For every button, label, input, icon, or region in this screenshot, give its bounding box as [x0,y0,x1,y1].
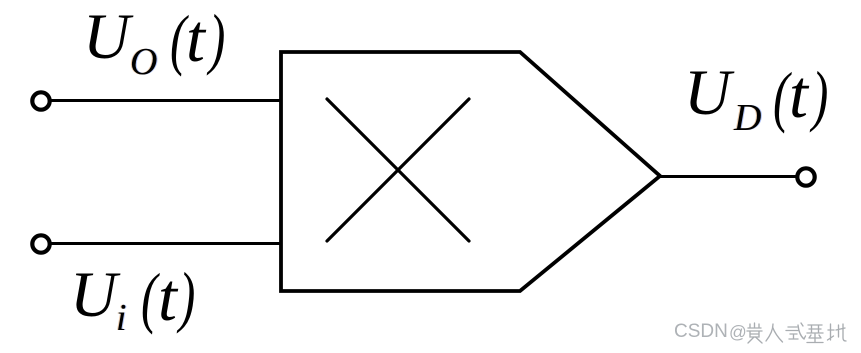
multiplier X symbol (diagonal 1) [327,99,469,241]
watermark: CSDN @嵌入式基地 [674,321,728,343]
wire: mixer apex to output terminal [659,175,797,178]
地 [828,324,847,341]
wire: top input to mixer left edge [52,99,283,102]
input terminal (top left, node Uo) [32,92,49,109]
output terminal (right, node Ud) [797,168,814,185]
watermark CJK glyphs (drawn) [745,322,847,344]
input terminal (bottom left, node Ui) [32,235,49,252]
label U_i(t) : bottom-left input [0,0,1,1]
mixer U1 body (pentagon outline) [281,52,660,291]
wire: bottom input to mixer left edge [52,242,283,245]
基 [807,325,823,343]
multiplier X symbol (diagonal 2) [327,99,469,241]
式 [786,323,806,339]
入 [766,324,783,342]
label U_O(t) : top-left input [0,0,1,1]
watermark @ sign [729,322,747,343]
label U_D(t) : output [0,0,1,1]
嵌 [747,323,762,343]
